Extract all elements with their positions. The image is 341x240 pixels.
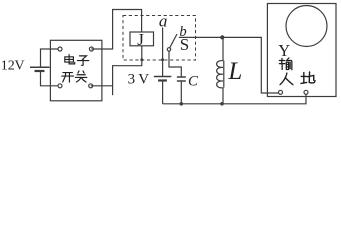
- svg-text:3: 3: [128, 71, 136, 87]
- svg-text:12: 12: [1, 59, 15, 74]
- svg-text:a: a: [159, 11, 168, 30]
- svg-text:b: b: [179, 24, 186, 40]
- svg-text:J: J: [137, 30, 144, 49]
- svg-text:L: L: [227, 58, 242, 85]
- svg-text:Y: Y: [278, 41, 290, 60]
- svg-text:V: V: [15, 59, 25, 74]
- svg-text:C: C: [188, 73, 199, 89]
- svg-text:V: V: [138, 71, 149, 87]
